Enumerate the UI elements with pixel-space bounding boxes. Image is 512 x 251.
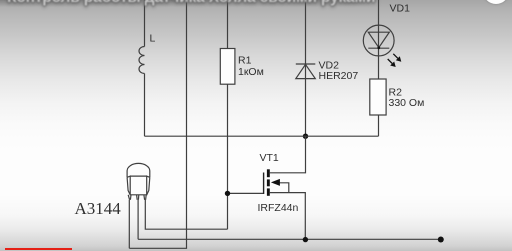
- svg-text:R1: R1: [238, 55, 252, 67]
- label L: [150, 33, 156, 45]
- transistor VT1 channel bars: [267, 169, 270, 195]
- node: bottom bus right terminal dot: [438, 237, 444, 243]
- wire: R2 bottom lead to top bus: [378, 115, 380, 136]
- svg-text:IRFZ44n: IRFZ44n: [258, 202, 299, 214]
- transistor VT1 gate bar: [263, 173, 265, 195]
- node: gate junction dot: [225, 191, 230, 196]
- wire: hall sensor leg 1 (to supply rail): [128, 200, 130, 249]
- resistor R1: [220, 49, 235, 85]
- svg-text:A3144: A3144: [75, 199, 122, 218]
- resistor R2: [370, 79, 386, 115]
- wire: bottom bus: [138, 238, 441, 240]
- label R1: [238, 55, 252, 67]
- label IRFZ44n: [258, 202, 299, 214]
- video title text (cut off at top): [7, 0, 375, 7]
- wire: inductor bottom lead to top bus: [144, 74, 146, 137]
- svg-text:VD1: VD1: [390, 3, 411, 15]
- LED VD1: [363, 25, 394, 56]
- diode VD2: [296, 64, 316, 79]
- wire: R1 branch top lead: [227, 0, 229, 49]
- value HER207: [319, 70, 359, 82]
- player UI white circle: [483, 0, 509, 4]
- wire: gate lead: [228, 192, 264, 194]
- LED light emission arrows: [388, 54, 402, 67]
- wire: source lead to bottom bus: [270, 193, 306, 240]
- value 1кОм: [238, 66, 264, 78]
- label VD2: [319, 60, 340, 72]
- svg-text:VT1: VT1: [260, 152, 279, 164]
- svg-text:1кОм: 1кОм: [238, 66, 264, 78]
- svg-text:L: L: [150, 33, 156, 45]
- wire: inductor branch top lead: [144, 0, 146, 47]
- label VT1: [260, 152, 279, 164]
- svg-text:HER207: HER207: [319, 70, 359, 82]
- node: source junction dot on bottom bus: [303, 237, 308, 242]
- wire: top bus: [145, 135, 379, 137]
- inductor L: [139, 47, 145, 74]
- wire: VD2 branch top lead: [305, 0, 307, 136]
- svg-text:330 Ом: 330 Ом: [389, 97, 425, 109]
- wire: R1 bottom lead down to gate node: [227, 84, 229, 229]
- wire: hall sensor leg 3 to gate node: [145, 200, 227, 229]
- node: top bus junction dot: [303, 134, 308, 139]
- wire: supply rail (vertical through frame, bottom jog to hall sensor leg 1): [129, 0, 186, 248]
- hall sensor A3144 package: [127, 163, 150, 199]
- wire: drain lead to top bus junction: [270, 136, 306, 173]
- player progress bar: [5, 248, 72, 251]
- video title overlay band: [0, 0, 382, 7]
- transistor VT1 body arrow: [271, 179, 289, 193]
- wire: hall sensor leg 2 into bottom bus: [137, 200, 139, 240]
- label R2: [389, 87, 403, 99]
- label VD1: [390, 3, 411, 15]
- wire: LED branch vertical lead: [378, 0, 380, 79]
- value 330 Ом: [389, 97, 425, 109]
- label A3144: [75, 199, 122, 218]
